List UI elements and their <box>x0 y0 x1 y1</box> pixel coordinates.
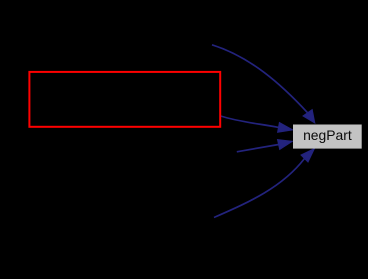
edge 1: top caller curve into negPart top <box>212 45 315 123</box>
edge 3: lower-left caller edge into negPart left <box>237 140 292 152</box>
node negPart (grey box with label) <box>293 125 362 149</box>
edge 4: bottom caller curve into negPart bottom <box>214 149 314 218</box>
edge 2: from red truncated node to negPart left <box>221 116 293 132</box>
node: truncated caller (red outline, empty) <box>29 72 220 127</box>
svg-text:negPart: negPart <box>303 127 352 143</box>
